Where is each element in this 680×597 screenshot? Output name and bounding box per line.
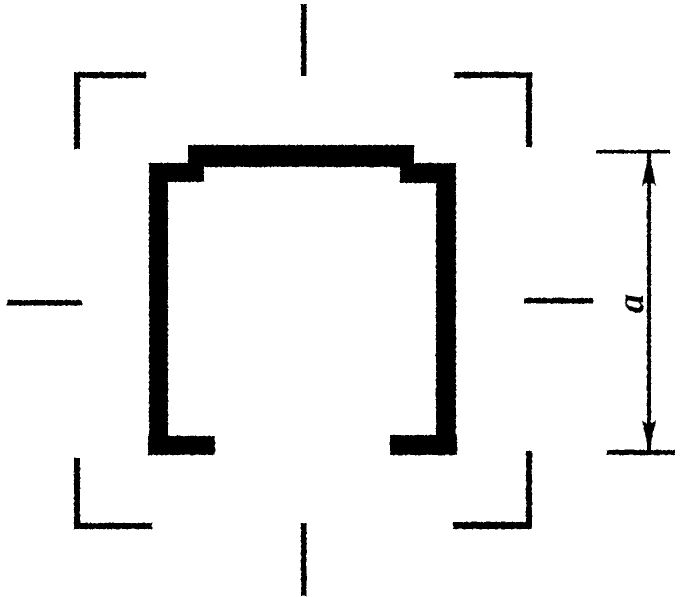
- corner crop mark bottom-right: [453, 451, 532, 529]
- land pattern bottom-left foot: [148, 436, 215, 455]
- corner crop mark bottom-left: [74, 458, 152, 529]
- svg-text:a: a: [610, 294, 652, 313]
- dimension extension line bottom: [607, 450, 675, 455]
- left centering mark: [7, 300, 82, 306]
- land pattern raised top bar: [188, 145, 414, 167]
- dimension extension line top: [596, 150, 670, 154]
- land pattern top-left step arm: [149, 163, 204, 182]
- land pattern bottom-right foot: [390, 435, 457, 455]
- land pattern top-right step arm: [400, 163, 456, 183]
- bottom centering mark: [301, 523, 307, 596]
- arrowhead up: [642, 152, 656, 186]
- land pattern left bar: [149, 163, 168, 455]
- top centering mark: [301, 4, 307, 76]
- dimension line: [647, 152, 651, 452]
- land pattern right bar: [436, 163, 456, 454]
- right centering mark: [524, 298, 593, 304]
- arrowhead down: [642, 420, 656, 452]
- corner crop mark top-left: [74, 72, 146, 149]
- corner crop mark top-right: [454, 72, 532, 147]
